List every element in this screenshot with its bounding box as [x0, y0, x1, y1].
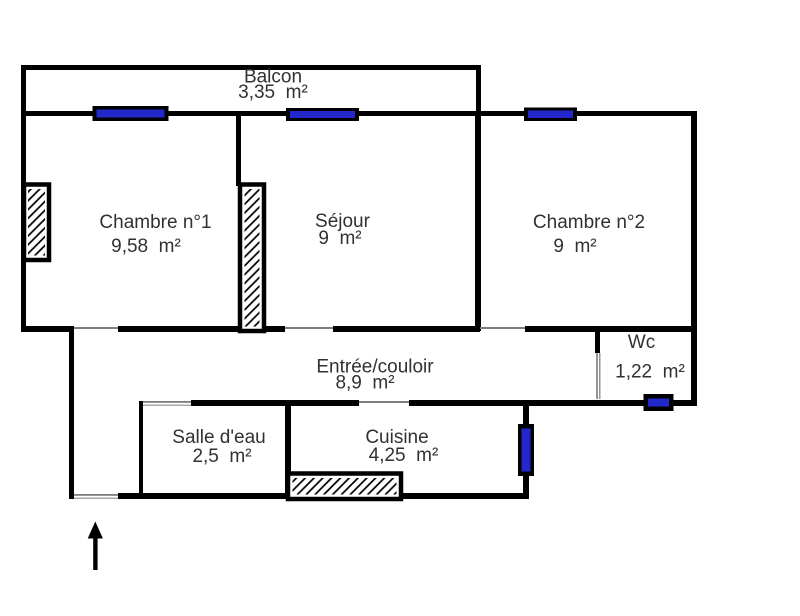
hatched door H2 between Chambre1 and Sejour — [240, 185, 264, 332]
wall: rooms bottom, segment under Chambre1/Sejour — [118, 326, 285, 332]
svg-text:Chambre n°1: Chambre n°1 — [99, 212, 211, 233]
hatched vent H1 on left wall of Chambre1 — [24, 185, 49, 261]
wall: mid horizontal (Entree bottom) segment — [191, 400, 359, 406]
window W2 Sejour top (blue) — [286, 108, 359, 121]
window W5 Cuisine right (blue, vertical) — [518, 424, 534, 476]
wall: divider Salle d'eau/Cuisine — [285, 401, 291, 499]
svg-text:4,25 m²: 4,25 m² — [369, 445, 439, 466]
svg-text:Wc: Wc — [628, 332, 655, 353]
door opening: Chambre2 (thin line) — [480, 327, 525, 329]
door opening: Salle d'eau (thin outline) — [143, 401, 191, 403]
wall: Cuisine right — [523, 404, 529, 499]
wall: balcony top — [21, 65, 481, 70]
window W1 Chambre1 top (blue) — [93, 106, 169, 121]
svg-text:1,22 m²: 1,22 m² — [615, 362, 685, 383]
wall: bottom outer — [118, 493, 529, 499]
svg-text:9,58 m²: 9,58 m² — [111, 236, 181, 257]
wall: divider Chambre1/Sejour (upper part) — [236, 116, 241, 186]
door opening: Sejour (thin line) — [285, 327, 333, 329]
door opening: Wc (thin vertical outline) — [596, 353, 597, 399]
wall: rooms bottom / Wc top segment — [525, 326, 695, 332]
door opening: Cuisine (thin line) — [359, 401, 409, 403]
door opening: entrance (thin outline) — [74, 494, 118, 496]
svg-text:Salle d'eau: Salle d'eau — [172, 427, 265, 448]
svg-text:Chambre n°2: Chambre n°2 — [533, 212, 645, 233]
svg-text:8,9 m²: 8,9 m² — [335, 373, 394, 394]
svg-text:3,35 m²: 3,35 m² — [238, 82, 308, 103]
svg-text:9 m²: 9 m² — [553, 236, 596, 257]
wall: divider Sejour/Chambre2 — [475, 116, 481, 331]
window W3 Chambre2 top (blue) — [524, 108, 577, 122]
wall: balcony right — [476, 65, 481, 116]
window W4 Wc bottom (blue) — [644, 394, 674, 411]
wall: Entree left — [69, 326, 74, 499]
svg-text:9 m²: 9 m² — [318, 228, 361, 249]
wall: left outer — [21, 65, 26, 332]
wall: rooms bottom, left jog segment — [21, 326, 74, 332]
hatched window H3 Cuisine bottom — [288, 474, 401, 500]
door opening: Chambre1 (thin line) — [74, 327, 118, 329]
wall: rooms top (balcony bottom, full width) — [21, 111, 695, 116]
svg-text:2,5 m²: 2,5 m² — [192, 446, 251, 467]
wall: Wc left (upper segment) — [595, 331, 600, 353]
wall: Salle d'eau left — [139, 401, 143, 499]
entrance arrow — [88, 522, 103, 571]
wall: mid horizontal / Wc bottom segment — [409, 400, 697, 406]
wall: right outer — [691, 111, 697, 405]
wall: rooms bottom, segment to divider — [333, 326, 480, 332]
